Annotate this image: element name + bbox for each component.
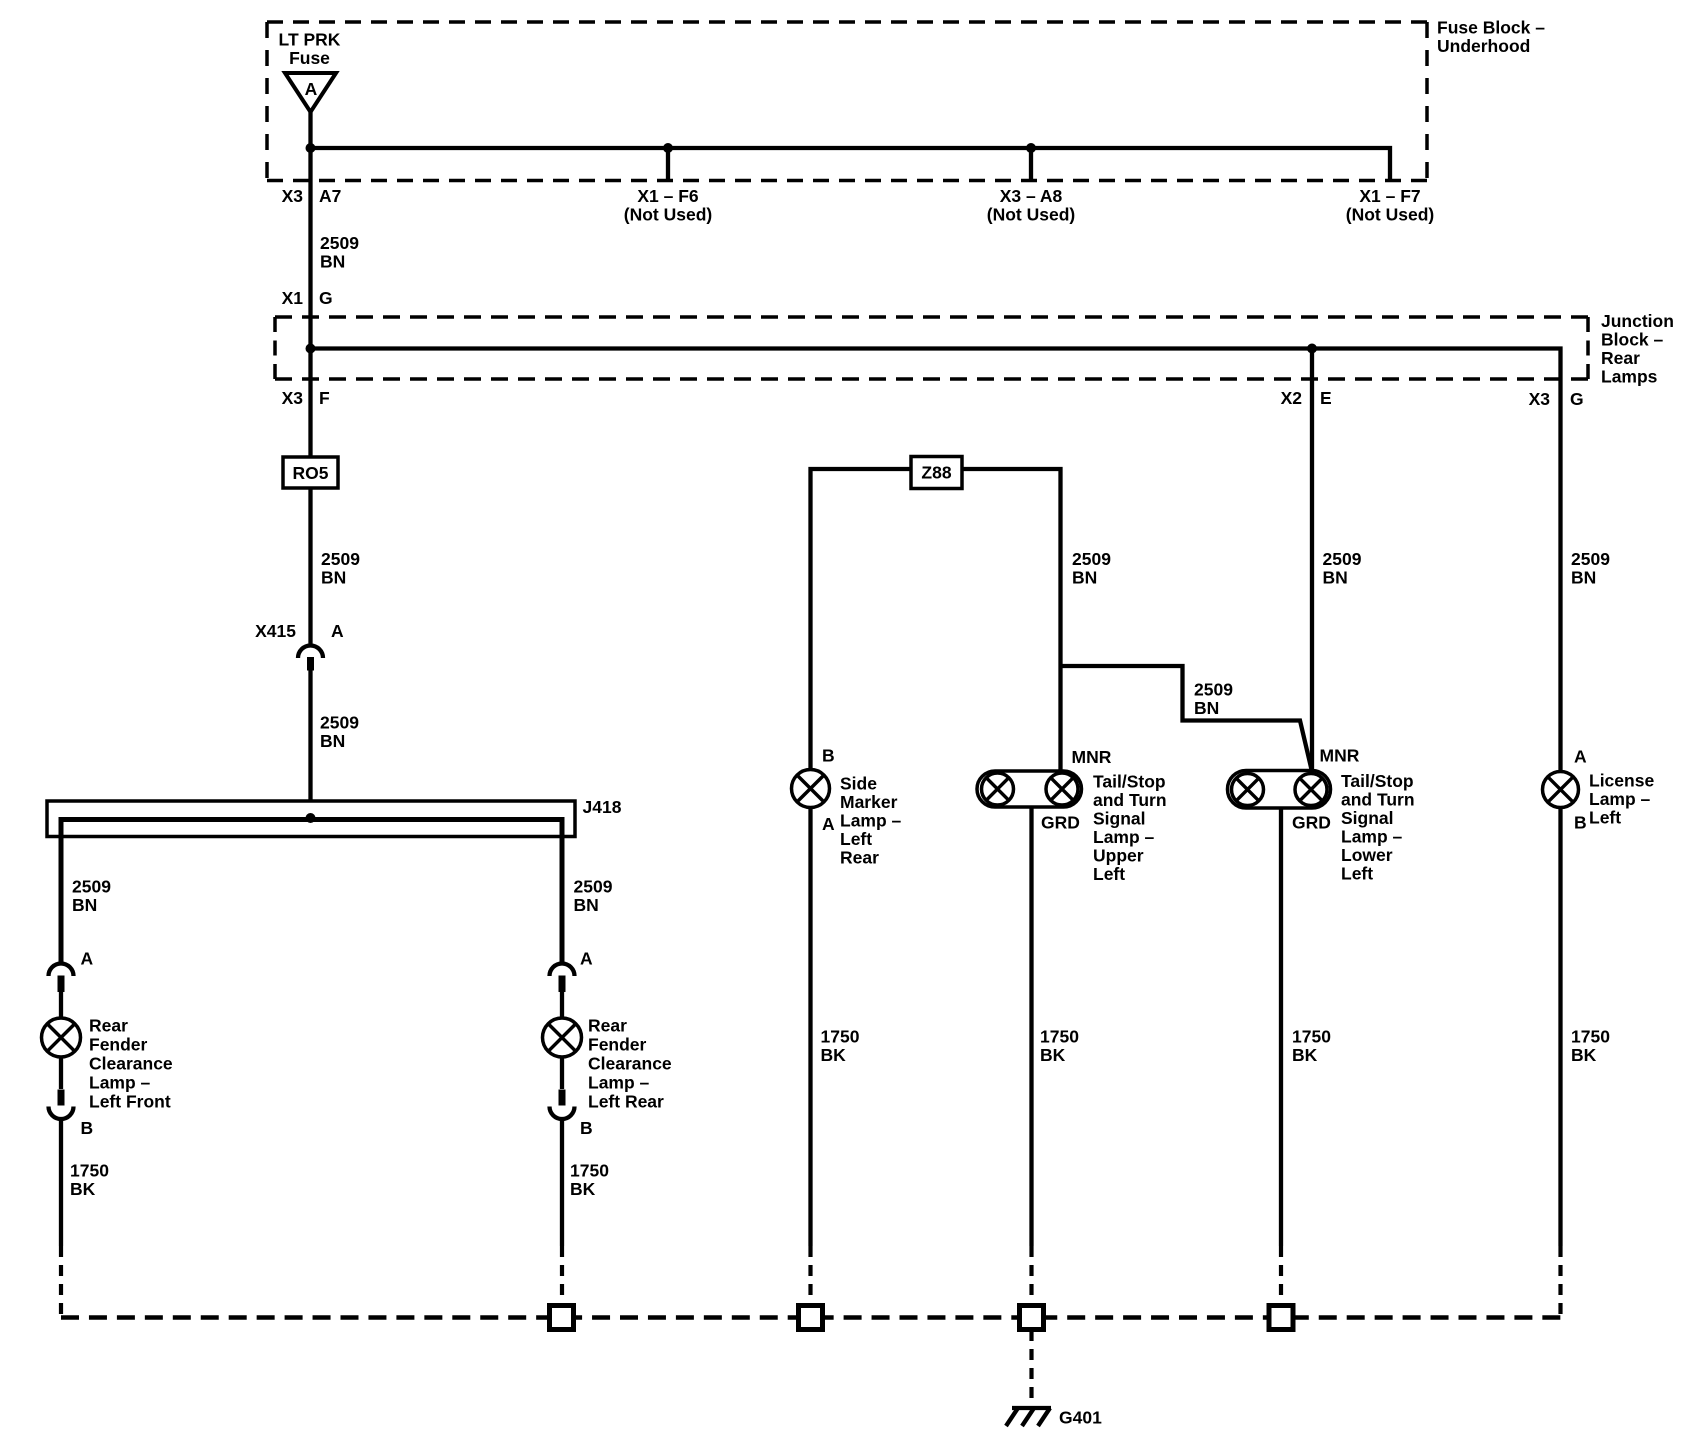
pin label GRD (upper lamp): [1041, 813, 1080, 833]
fuse block - underhood dashed boundary: [267, 22, 1427, 181]
svg-text:LT PRK: LT PRK: [279, 30, 341, 50]
svg-text:2509: 2509: [1571, 549, 1610, 569]
svg-text:BN: BN: [320, 731, 345, 751]
svg-text:B: B: [81, 1118, 94, 1138]
splice J418 internal bus with branch drops: [61, 820, 562, 964]
connector pin A left (arc + pin): [49, 964, 74, 1018]
value label 2509 BN (jog): [1194, 680, 1233, 719]
svg-text:GRD: GRD: [1041, 813, 1080, 833]
value label 2509 BN: [320, 713, 359, 752]
splice block J418 (outer box): [47, 801, 575, 837]
svg-text:Signal: Signal: [1341, 808, 1394, 828]
label: LT PRK Fuse: [279, 30, 341, 69]
svg-text:Underhood: Underhood: [1437, 36, 1530, 56]
pin label GRD (lower lamp): [1292, 813, 1331, 833]
lamp: tail/stop and turn signal lamp - lower left (dual element): [1228, 771, 1331, 809]
value label 1750 BK (license): [1571, 1027, 1610, 1066]
svg-text:Junction: Junction: [1601, 311, 1674, 331]
svg-text:A: A: [81, 949, 94, 969]
svg-text:E: E: [1320, 388, 1332, 408]
junction block - rear lamps dashed boundary: [275, 317, 1588, 379]
pin label A (side marker): [822, 814, 835, 834]
svg-text:B: B: [822, 746, 835, 766]
svg-text:Marker: Marker: [840, 792, 898, 812]
wire: X2-E branch down to tail/stop lower lamp: [1310, 349, 1314, 771]
fuse LT PRK (triangle symbol): [285, 73, 336, 112]
label: License Lamp - Left: [1589, 771, 1654, 828]
svg-text:Left Front: Left Front: [89, 1092, 171, 1112]
svg-text:Fuse: Fuse: [289, 48, 330, 68]
svg-text:BN: BN: [574, 895, 599, 915]
connector X415 pin A (arc + pin): [298, 646, 323, 671]
svg-text:Clearance: Clearance: [89, 1054, 173, 1074]
svg-text:1750: 1750: [1292, 1027, 1331, 1047]
pin label X2 | E: [1281, 388, 1332, 408]
svg-text:BN: BN: [320, 252, 345, 272]
pin label X1 | G: [282, 288, 333, 308]
svg-text:X1 – F7: X1 – F7: [1359, 186, 1420, 206]
value label 2509 BN: [321, 549, 360, 588]
junction: dot at X3-A8 stub: [1026, 143, 1036, 153]
label: Rear Fender Clearance Lamp - Left Rear: [588, 1016, 672, 1112]
svg-text:Fender: Fender: [588, 1035, 647, 1055]
wire: ground bus drop to G401: [1029, 1330, 1033, 1403]
svg-text:G: G: [319, 288, 333, 308]
value label 1750 BK (right): [570, 1161, 609, 1200]
value label 1750 BK (tail/stop upper): [1040, 1027, 1079, 1066]
wire: 1750 BK tail/stop lower to ground bus: [1279, 808, 1283, 1305]
svg-text:Block –: Block –: [1601, 330, 1664, 350]
svg-text:Left: Left: [1093, 864, 1125, 884]
component RO5 (in-line box): [283, 457, 338, 488]
svg-text:BN: BN: [72, 895, 97, 915]
svg-text:Lamp –: Lamp –: [840, 811, 902, 831]
svg-text:BN: BN: [1571, 568, 1596, 588]
value label 1750 BK (tail/stop lower): [1292, 1027, 1331, 1066]
lamp: rear fender clearance lamp - left front (circle with X): [42, 1018, 81, 1057]
connector pin B right (pin + arc): [550, 1057, 575, 1119]
connector pin B left (pin + arc): [49, 1057, 74, 1119]
svg-text:Tail/Stop: Tail/Stop: [1093, 772, 1166, 792]
lamp: rear fender clearance lamp - left rear (circle with X): [543, 1018, 582, 1057]
svg-text:2509: 2509: [320, 713, 359, 733]
svg-text:and Turn: and Turn: [1093, 790, 1167, 810]
value label 2509 BN (license lamp feed): [1571, 549, 1610, 588]
svg-text:Rear: Rear: [1601, 348, 1640, 368]
svg-text:BK: BK: [570, 1179, 596, 1199]
lamp: tail/stop and turn signal lamp - upper left (dual element): [977, 771, 1082, 807]
svg-text:2509: 2509: [72, 877, 111, 897]
svg-text:Fender: Fender: [89, 1035, 148, 1055]
splice square (right fender drop): [550, 1306, 574, 1330]
svg-text:Signal: Signal: [1093, 809, 1146, 829]
node label X1-F6 (Not Used): [624, 186, 712, 225]
svg-text:1750: 1750: [1040, 1027, 1079, 1047]
svg-text:Fuse Block –: Fuse Block –: [1437, 18, 1545, 38]
svg-text:A7: A7: [319, 186, 341, 206]
svg-text:A: A: [1574, 747, 1587, 767]
svg-text:BN: BN: [321, 568, 346, 588]
value label 2509 BN (tail/stop upper feed): [1072, 549, 1111, 588]
svg-text:Rear: Rear: [588, 1016, 627, 1036]
svg-text:2509: 2509: [1323, 549, 1362, 569]
lamp: license lamp - left (circle with X): [1543, 772, 1579, 808]
wire: X415 to splice J418: [308, 671, 312, 820]
node label X1-F7 (Not Used): [1346, 186, 1434, 225]
svg-text:GRD: GRD: [1292, 813, 1331, 833]
svg-text:J418: J418: [583, 797, 622, 817]
label: Side Marker Lamp - Left Rear: [840, 774, 902, 868]
label: Tail/Stop and Turn Signal Lamp - Upper Left: [1093, 772, 1167, 885]
pin label MNR (lower lamp): [1320, 746, 1360, 766]
value label 2509 BN (left branch): [72, 877, 111, 916]
svg-text:G401: G401: [1059, 1408, 1102, 1428]
svg-text:A: A: [331, 621, 344, 641]
value label 2509 BN (right branch): [574, 877, 613, 916]
pin label B (right): [580, 1118, 593, 1138]
svg-text:A: A: [822, 814, 835, 834]
svg-text:(Not Used): (Not Used): [1346, 205, 1434, 225]
connector label X415 | A: [255, 621, 344, 641]
svg-text:Left: Left: [1341, 864, 1373, 884]
label: Tail/Stop and Turn Signal Lamp - Lower Left: [1341, 771, 1415, 884]
pin label B (license): [1574, 813, 1587, 833]
wire: 1750 BK left fender lamp to ground bus: [59, 1119, 63, 1317]
wire: 1750 BK tail/stop upper to ground bus: [1029, 807, 1033, 1305]
splice square (side marker drop): [799, 1306, 823, 1330]
svg-text:Lamp –: Lamp –: [89, 1073, 151, 1093]
svg-text:MNR: MNR: [1072, 747, 1112, 767]
svg-text:BK: BK: [1292, 1045, 1318, 1065]
svg-text:Left: Left: [840, 829, 872, 849]
junction: dot at X1-F6 stub: [663, 143, 673, 153]
wire: 1750 BK right fender lamp to ground bus: [560, 1119, 564, 1305]
svg-text:Rear: Rear: [840, 848, 879, 868]
svg-text:Z88: Z88: [921, 463, 951, 483]
pin label A (right): [580, 949, 593, 969]
svg-text:BK: BK: [1040, 1045, 1066, 1065]
wire: RO5 to X415: [308, 488, 312, 646]
svg-text:A: A: [305, 79, 318, 99]
svg-text:A: A: [580, 949, 593, 969]
svg-text:X1 – F6: X1 – F6: [637, 186, 699, 206]
value label 1750 BK (left): [70, 1161, 109, 1200]
label: Rear Fender Clearance Lamp - Left Front: [89, 1016, 173, 1112]
svg-text:2509: 2509: [1194, 680, 1233, 700]
wire: ground bus (dashed): [61, 1315, 1561, 1320]
svg-text:License: License: [1589, 771, 1654, 791]
svg-text:BK: BK: [70, 1179, 96, 1199]
wire: 2509 BN from fuse block down through junction block to RO5: [308, 148, 312, 457]
svg-text:2509: 2509: [574, 877, 613, 897]
wire: fuse block internal bus with corner down to X1-F7: [311, 148, 1391, 181]
svg-text:2509: 2509: [320, 233, 359, 253]
label: Fuse Block - Underhood: [1437, 18, 1545, 57]
pin label MNR (upper lamp): [1072, 747, 1112, 767]
wire: stub to X1-F6: [666, 148, 670, 181]
label G401: [1059, 1408, 1102, 1428]
svg-text:Left: Left: [1589, 808, 1621, 828]
svg-text:(Not Used): (Not Used): [624, 205, 712, 225]
svg-text:F: F: [319, 388, 330, 408]
splice square (tail/stop upper drop): [1020, 1306, 1044, 1330]
svg-text:1750: 1750: [821, 1027, 860, 1047]
lamp: side marker lamp - left rear (circle with X): [792, 770, 830, 808]
svg-text:1750: 1750: [570, 1161, 609, 1181]
svg-text:Lamp –: Lamp –: [1093, 827, 1155, 847]
pin label X3 | F: [282, 388, 330, 408]
svg-text:B: B: [1574, 813, 1587, 833]
svg-text:1750: 1750: [1571, 1027, 1610, 1047]
pin label X3 | A7: [282, 186, 342, 206]
svg-text:X1: X1: [282, 288, 304, 308]
label J418: [583, 797, 622, 817]
svg-text:G: G: [1570, 389, 1584, 409]
svg-text:and Turn: and Turn: [1341, 790, 1415, 810]
svg-text:X3: X3: [1529, 389, 1551, 409]
wire: Z88 splice run (side marker up, across, down to tail/stop upper): [811, 469, 1061, 771]
junction: dot at left vertical / bus: [306, 344, 316, 354]
svg-text:B: B: [580, 1118, 593, 1138]
svg-text:Lower: Lower: [1341, 845, 1393, 865]
svg-text:Lamp –: Lamp –: [1341, 827, 1403, 847]
svg-text:2509: 2509: [1072, 549, 1111, 569]
value label 2509 BN: [320, 233, 359, 272]
value label 1750 BK (side marker): [821, 1027, 860, 1066]
svg-text:BK: BK: [1571, 1045, 1597, 1065]
svg-text:Side: Side: [840, 774, 877, 794]
label: Junction Block - Rear Lamps: [1601, 311, 1674, 387]
svg-text:Upper: Upper: [1093, 846, 1144, 866]
svg-text:X415: X415: [255, 621, 296, 641]
pin label B (left): [81, 1118, 94, 1138]
svg-text:Clearance: Clearance: [588, 1054, 672, 1074]
svg-text:(Not Used): (Not Used): [987, 205, 1075, 225]
svg-text:Rear: Rear: [89, 1016, 128, 1036]
splice square (tail/stop lower drop): [1269, 1306, 1293, 1330]
svg-text:RO5: RO5: [293, 463, 329, 483]
svg-text:X2: X2: [1281, 388, 1303, 408]
svg-text:Lamp –: Lamp –: [588, 1073, 650, 1093]
svg-text:Left Rear: Left Rear: [588, 1092, 664, 1112]
wire: stub to X3-A8: [1029, 148, 1033, 181]
svg-text:BK: BK: [821, 1045, 847, 1065]
wire: 1750 BK license lamp to ground bus: [1558, 808, 1562, 1318]
pin label X3 | G: [1529, 389, 1584, 409]
pin label B (side marker): [822, 746, 835, 766]
connector pin A right (arc + pin): [550, 964, 575, 1019]
node label X3-A8 (Not Used): [987, 186, 1075, 225]
svg-text:Lamp –: Lamp –: [1589, 789, 1651, 809]
wire: junction block internal bus with corner down to X3-G / license lamp: [311, 349, 1561, 772]
svg-text:BN: BN: [1194, 698, 1219, 718]
svg-text:Tail/Stop: Tail/Stop: [1341, 771, 1414, 791]
svg-text:X3: X3: [282, 186, 304, 206]
wire: fuse output to internal bus: [308, 110, 312, 148]
wire: jog between tail/stop lamps: [1061, 666, 1312, 770]
junction: dot at X2-E branch: [1307, 344, 1317, 354]
value label 2509 BN (X2-E feed): [1323, 549, 1362, 588]
svg-text:1750: 1750: [70, 1161, 109, 1181]
svg-text:BN: BN: [1323, 568, 1348, 588]
junction: dot at J418 center feed: [306, 813, 316, 823]
svg-text:Lamps: Lamps: [1601, 367, 1658, 387]
svg-text:BN: BN: [1072, 568, 1097, 588]
splice Z88 (box on wire): [911, 457, 962, 489]
svg-text:MNR: MNR: [1320, 746, 1360, 766]
junction: dot at fuse/bus: [306, 143, 316, 153]
pin label A (license): [1574, 747, 1587, 767]
svg-text:X3 – A8: X3 – A8: [1000, 186, 1063, 206]
wire: 1750 BK side marker to ground bus: [808, 807, 812, 1305]
ground G401 symbol: [1006, 1408, 1051, 1426]
svg-text:2509: 2509: [321, 549, 360, 569]
svg-text:X3: X3: [282, 388, 304, 408]
fuse pin A label: [305, 79, 318, 99]
pin label A (left): [81, 949, 94, 969]
